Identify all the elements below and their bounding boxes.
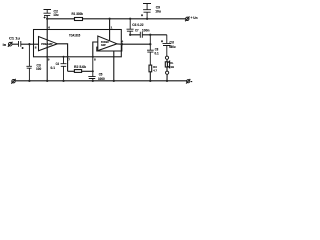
terminal output right (187, 80, 190, 83)
capacitor C8 (147, 35, 154, 65)
wire preamp output to pin 7 down to R2 (57, 44, 67, 72)
svg-text:0.1: 0.1 (51, 66, 56, 70)
wire C1 to box (21, 43, 34, 45)
wire R3 to rail (149, 72, 151, 81)
svg-text:TDA1015: TDA1015 (69, 33, 80, 37)
op-amp A2 power amp triangle (98, 36, 117, 51)
svg-text:R1 330k: R1 330k (72, 12, 84, 16)
wire feedback loop power amp (97, 44, 122, 51)
svg-text:0.1: 0.1 (155, 52, 159, 56)
capacitor C2 (44, 10, 52, 19)
pin numbers (35, 26, 124, 62)
svg-text:8: 8 (35, 45, 37, 49)
svg-text:4: 4 (121, 39, 123, 43)
svg-text:4Ω: 4Ω (170, 65, 174, 69)
wire supply pin power amp (109, 19, 111, 41)
wire power amp output (117, 43, 150, 45)
svg-text:In: In (3, 43, 7, 47)
wire pin 7 corner to R2 (68, 70, 75, 72)
resistor R2 (74, 70, 81, 73)
svg-text:9: 9 (48, 58, 50, 62)
capacitor C4 (61, 57, 67, 81)
capacitor C1 (19, 41, 24, 49)
labels (3, 6, 198, 81)
junction dots (28, 18, 168, 82)
wire pin 8 up to power amp input (93, 42, 98, 57)
svg-text:6: 6 (48, 26, 50, 30)
wire input to preamp (34, 43, 39, 45)
wire ground pin power amp to rail (113, 51, 115, 81)
terminal input (8, 42, 12, 46)
wire R2 to node (82, 70, 93, 72)
terminal supply (186, 17, 189, 20)
capacitor C6 (127, 19, 134, 35)
capacitor C3 (26, 44, 32, 81)
wire pin 6 vertical through preamp (46, 15, 48, 81)
svg-text:680u: 680u (169, 45, 175, 49)
resistor R1 (75, 18, 83, 21)
svg-text:1000: 1000 (98, 77, 105, 81)
svg-text:4.7: 4.7 (153, 69, 157, 73)
capacitor C10 (161, 35, 171, 56)
svg-text:100: 100 (36, 67, 41, 71)
svg-text:AMP: AMP (101, 43, 106, 47)
wire C6 to C7 to C10 (130, 34, 167, 36)
svg-text:C1 1u: C1 1u (9, 36, 20, 40)
svg-text:1: 1 (111, 26, 113, 30)
svg-text:C6 0.22: C6 0.22 (132, 23, 143, 27)
svg-text:10u: 10u (53, 13, 58, 17)
svg-text:+ Un: + Un (191, 16, 198, 20)
capacitor C7 (140, 32, 142, 38)
svg-text:C7: C7 (135, 29, 139, 33)
wire top rail (47, 18, 185, 20)
wire bottom rail (15, 80, 187, 82)
capacitor C9 (141, 4, 151, 19)
svg-text:7: 7 (68, 57, 70, 61)
svg-text:10u: 10u (155, 10, 161, 14)
capacitor C5 (88, 57, 95, 81)
svg-text:C5: C5 (99, 72, 103, 76)
terminal ground left (12, 80, 15, 83)
svg-text:C10: C10 (170, 41, 175, 45)
resistor R3 (149, 65, 152, 72)
svg-text:PREAMP: PREAMP (41, 42, 52, 46)
svg-text:8: 8 (94, 58, 96, 62)
node speaker terminal top (165, 56, 168, 59)
op-amp A1 preamp triangle (39, 37, 58, 51)
svg-text:100n: 100n (142, 29, 150, 33)
node speaker terminal bottom (166, 71, 169, 74)
svg-text:R2 5.6k: R2 5.6k (74, 65, 86, 69)
svg-text:C4: C4 (56, 62, 60, 66)
IC U1 TDA1015 box (34, 30, 122, 57)
wire input terminal to C1 (12, 43, 19, 45)
loudspeaker LS (166, 59, 168, 62)
